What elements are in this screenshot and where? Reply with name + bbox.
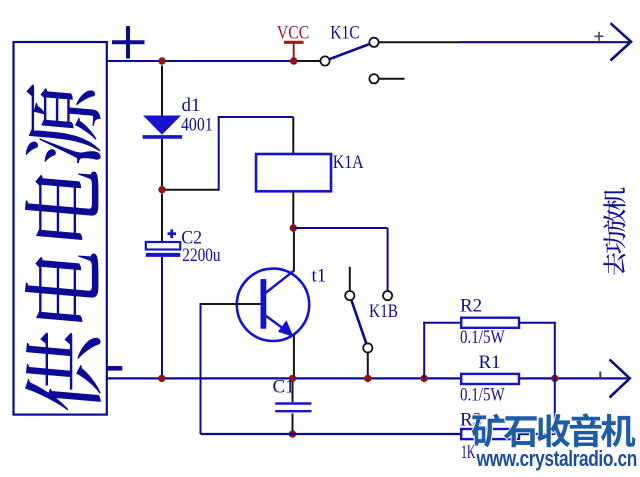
wire R2 branch [423,322,425,379]
capacitor C2 [146,242,180,250]
resistor R3 [461,429,519,439]
wire collector [293,232,295,271]
node diode/C2 junction [158,186,165,193]
svg-text:C1: C1 [273,377,295,398]
capacitor C1 [292,382,294,402]
output arrow top [611,23,632,60]
wire right column [554,322,556,434]
node VCC junction [290,57,297,64]
plus terminal [126,26,130,59]
resistor R2 [461,318,519,328]
svg-text:d1: d1 [182,95,201,116]
node relay/collector junction [290,224,297,231]
svg-text:K1B: K1B [369,301,398,322]
node junction top-left [158,57,165,64]
wire to diode [161,66,163,117]
polarity tick bottom arrow [599,372,601,379]
transistor t1 [237,269,309,341]
wire relay to collector node [292,191,294,228]
wire top rail [107,60,294,62]
resistor R1 [461,374,519,384]
node C1 bottom junction [289,430,296,437]
plus polarity top arrow [595,35,604,37]
box label 供电电源 [25,84,101,414]
relay coil K1A [256,154,331,191]
svg-text:4001: 4001 [181,115,213,136]
svg-text:R2: R2 [460,296,482,317]
wire base [201,303,261,305]
output arrow bottom [610,359,630,397]
node bus junctions [158,375,165,382]
svg-text:R1: R1 [479,352,501,373]
wire emitter [293,335,295,378]
switch K1C [320,56,329,65]
power supply box [14,42,107,415]
svg-text:2200u: 2200u [182,245,221,266]
wire to K1B [293,227,387,229]
svg-text:0.1/5W: 0.1/5W [460,385,505,406]
label 去功放机 [603,188,625,275]
wire cathode to relay [166,189,219,191]
svg-text:1K: 1K [461,442,476,463]
svg-text:t1: t1 [312,266,327,287]
svg-text:www.crystalradio.cn: www.crystalradio.cn [476,447,637,472]
wire K1C NC stub [379,78,405,80]
main bus [107,377,630,379]
minus terminal [107,366,123,371]
watermark 矿石收音机 [472,413,635,447]
switch K1B stub [349,267,351,291]
svg-text:VCC: VCC [277,23,309,44]
diode d1 [143,116,181,135]
svg-text:K1A: K1A [333,152,364,173]
svg-text:0.1/5W: 0.1/5W [460,327,505,348]
wire C2 to bus [161,257,163,378]
VCC symbol [284,41,304,44]
wire to C2 [161,194,163,242]
lower rail [201,433,462,435]
C2 plus sign [168,232,177,235]
wire diode cathode down [161,139,163,186]
switch K1B [345,291,354,300]
svg-text:K1C: K1C [330,23,360,44]
wire K1C output [379,41,460,43]
